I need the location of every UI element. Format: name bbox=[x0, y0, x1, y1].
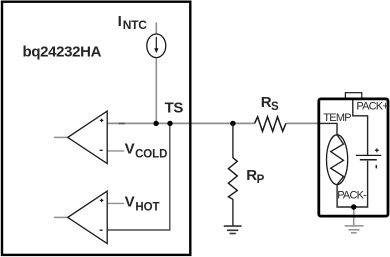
thermistor RT (ellipse with zigzag) bbox=[327, 135, 348, 185]
wire I_NTC (current source to TS node) bbox=[155, 23, 157, 123]
battery BT1 plates bbox=[356, 155, 381, 159]
battery - mark bbox=[375, 165, 377, 169]
label V_COLD bbox=[125, 141, 168, 161]
current source I_NTC bbox=[147, 34, 166, 58]
wire pack ground bbox=[353, 207, 355, 225]
wire thermistor bottom to PACK- node bbox=[337, 185, 354, 207]
svg-text:PACK+: PACK+ bbox=[356, 100, 388, 112]
battery + mark bbox=[375, 148, 379, 152]
svg-text:I: I bbox=[118, 13, 122, 30]
wire output stub comparator U2 bbox=[54, 216, 69, 218]
resistor R_P bbox=[228, 158, 237, 200]
svg-text:V: V bbox=[125, 193, 135, 210]
label V_HOT bbox=[125, 193, 160, 213]
svg-text:S: S bbox=[271, 101, 279, 113]
label R_P bbox=[246, 167, 264, 186]
comparator U1 (cold) bbox=[68, 111, 108, 164]
wire stub at U1 non-inverting input bbox=[119, 122, 125, 124]
wire PACK+ (tab to battery) bbox=[353, 100, 368, 156]
wire V_COLD input stub (U1 inverting) bbox=[107, 150, 124, 152]
wire TS net (horizontal) bbox=[107, 122, 318, 124]
ground symbol (R_P) bbox=[224, 226, 242, 233]
svg-text:NTC: NTC bbox=[123, 18, 148, 32]
svg-text:P: P bbox=[257, 174, 265, 186]
label R_S bbox=[261, 94, 279, 113]
junction node TS (I_NTC wire joins) bbox=[153, 121, 158, 126]
comparator U2 (hot) bbox=[68, 191, 108, 244]
wire R_P bottom lead bbox=[232, 199, 234, 226]
wire battery bottom to PACK- node bbox=[354, 161, 368, 207]
wire V_HOT input stub (U2 non-inverting) bbox=[107, 202, 124, 204]
label I_NTC bbox=[118, 13, 148, 32]
svg-text:V: V bbox=[125, 141, 135, 158]
battery pack box bbox=[319, 99, 388, 216]
junction node (R_P joins) bbox=[230, 121, 235, 126]
junction node PACK- bbox=[351, 204, 356, 209]
PACK+ terminal tab bbox=[345, 93, 361, 99]
svg-text:TS: TS bbox=[165, 100, 184, 117]
junction node (U2 inverting wire joins) bbox=[167, 121, 172, 126]
IC box bq24232HA bbox=[2, 2, 190, 255]
resistor R_S bbox=[255, 117, 286, 132]
svg-text:HOT: HOT bbox=[135, 201, 159, 213]
wire R_P top lead bbox=[232, 123, 234, 158]
svg-text:PACK-: PACK- bbox=[337, 189, 367, 201]
wire U2 inverting input to TS node bbox=[107, 124, 170, 230]
wire TEMP net inside pack bbox=[319, 123, 337, 135]
svg-text:TEMP: TEMP bbox=[323, 112, 351, 124]
svg-text:COLD: COLD bbox=[135, 149, 167, 161]
wire output stub comparator U1 bbox=[54, 136, 69, 138]
ground symbol (pack) bbox=[345, 226, 364, 233]
svg-text:bq24232HA: bq24232HA bbox=[23, 44, 102, 61]
